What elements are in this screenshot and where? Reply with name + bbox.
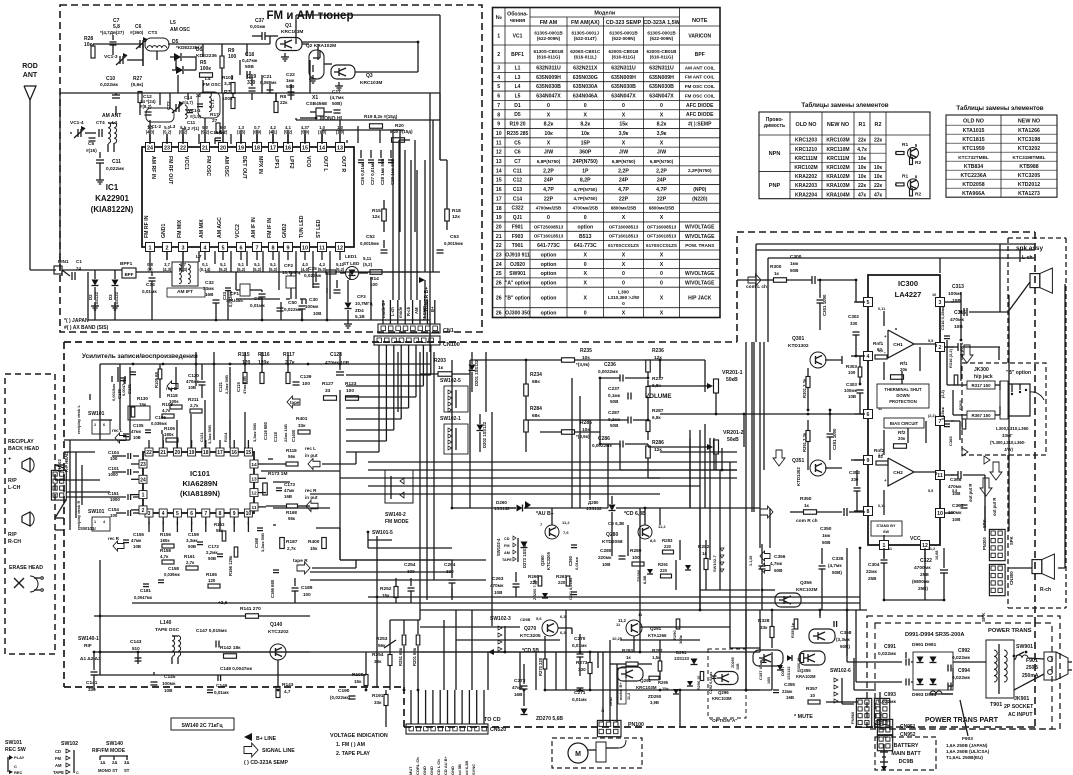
svg-text:R114: R114 <box>223 432 228 442</box>
svg-text:1P: 1P <box>582 168 589 174</box>
svg-text:Q301: Q301 <box>792 336 804 342</box>
svg-text:24P: 24P <box>544 178 554 184</box>
svg-text:C356: C356 <box>774 554 786 560</box>
svg-text:C352: C352 <box>849 470 860 475</box>
svg-text:C5: C5 <box>514 140 521 146</box>
wires tape osc <box>94 651 310 653</box>
svg-text:3,3: 3,3 <box>224 81 231 87</box>
svg-text:24: 24 <box>140 477 146 483</box>
svg-text:R108: R108 <box>162 402 173 407</box>
svg-text:X: X <box>660 262 664 268</box>
wire amp top rails extra <box>756 243 1035 245</box>
svg-text:22: 22 <box>180 145 186 151</box>
svg-text:BACK HEAD: BACK HEAD <box>8 446 39 452</box>
svg-text:0: 0 <box>622 280 625 286</box>
connector CN520 <box>406 724 488 734</box>
svg-text:8: 8 <box>497 112 500 118</box>
svg-text:6130S-0001B: 6130S-0001B <box>609 30 638 35</box>
svg-text:B+: B+ <box>600 706 605 712</box>
svg-text:1Δ: 1Δ <box>100 760 105 765</box>
svg-text:C115: C115 <box>236 382 241 392</box>
svg-text:C313: C313 <box>952 284 964 290</box>
bus amp top rail <box>756 249 1035 251</box>
svg-text:KTD2012: KTD2012 <box>1018 182 1040 188</box>
svg-text:24: 24 <box>147 145 153 151</box>
svg-text:(0,022мк): (0,022мк) <box>330 695 351 700</box>
svg-text:MPX IN: MPX IN <box>257 156 263 174</box>
svg-text:6: 6 <box>103 423 105 427</box>
svg-text:21: 21 <box>160 450 166 456</box>
svg-text:PN100: PN100 <box>628 722 644 728</box>
svg-text:OFT25008513: OFT25008513 <box>534 224 564 229</box>
wire comb mid col <box>491 412 493 626</box>
svg-text:CN300: CN300 <box>1009 571 1014 585</box>
svg-text:X: X <box>547 140 551 146</box>
svg-text:DET OUT: DET OUT <box>241 156 247 180</box>
svg-text:C263: C263 <box>492 576 504 582</box>
svg-text:22к: 22к <box>874 183 883 189</box>
svg-text:SW101r: SW101r <box>80 526 96 531</box>
svg-text:R187: R187 <box>286 539 298 545</box>
svg-text:AM OSC: AM OSC <box>170 27 190 33</box>
svg-text:9: 9 <box>233 511 236 517</box>
svg-text:R127: R127 <box>322 381 334 387</box>
svg-text:2,2мк 50B: 2,2мк 50B <box>224 375 229 394</box>
svg-text:X: X <box>547 112 551 118</box>
IC1 bottom pins 1-12 <box>146 243 155 252</box>
wire horiz tier1 <box>368 539 392 541</box>
svg-text:T901: T901 <box>512 243 524 249</box>
svg-text:47мк: 47мк <box>131 429 142 434</box>
svg-text:R254: R254 <box>372 652 384 658</box>
svg-text:TAPE OSC: TAPE OSC <box>155 627 180 633</box>
svg-text:ZD290: ZD290 <box>648 694 662 699</box>
svg-text:OUT L: OUT L <box>322 156 328 172</box>
svg-text:C26 0,01мк: C26 0,01мк <box>360 161 365 185</box>
svg-text:D201 1SS132: D201 1SS132 <box>474 359 479 386</box>
svg-text:26: 26 <box>496 295 502 301</box>
svg-text:AM IFT: AM IFT <box>177 289 193 295</box>
svg-text:100: 100 <box>346 388 354 394</box>
svg-text:5,5: 5,5 <box>952 489 957 493</box>
svg-text:100мк: 100мк <box>162 681 176 686</box>
svg-text:Rf1: Rf1 <box>900 361 908 366</box>
svg-text:NOTE: NOTE <box>692 18 708 24</box>
svg-text:18: 18 <box>254 145 260 151</box>
svg-text:KRC111M: KRC111M <box>827 156 850 162</box>
IC300 bottom pins 1,12 <box>880 541 889 550</box>
svg-text:(616-011G): (616-011G) <box>537 55 561 60</box>
wire tuner rail y120 <box>296 119 340 121</box>
svg-text:634N047X: 634N047X <box>536 94 561 100</box>
svg-text:REC SW: REC SW <box>5 747 26 753</box>
svg-text:GND: GND <box>608 697 613 706</box>
svg-text:in put: in put <box>305 453 318 458</box>
svg-text:CORL Ch: CORL Ch <box>415 757 420 775</box>
svg-text:PNP: PNP <box>769 183 781 189</box>
wire q-cluster <box>302 43 309 45</box>
svg-text:510: 510 <box>132 646 140 651</box>
svg-text:BPF1: BPF1 <box>120 261 133 267</box>
svg-text:BPF1: BPF1 <box>511 52 524 58</box>
svg-text:632N211X: 632N211X <box>573 66 598 72</box>
wire vr to mid <box>704 424 706 508</box>
svg-text:cd 6,3B: cd 6,3B <box>464 761 469 775</box>
svg-text:KTC732TMBL: KTC732TMBL <box>958 155 989 160</box>
svg-text:2,2P(N750): 2,2P(N750) <box>688 168 712 173</box>
svg-text:D260: D260 <box>496 500 507 505</box>
svg-text:C994: C994 <box>958 668 970 674</box>
svg-text:50B: 50B <box>188 544 196 549</box>
svg-text:10B: 10B <box>188 385 196 390</box>
wire tuner top bus <box>93 43 143 45</box>
svg-text:2: 2 <box>94 423 96 427</box>
svg-text:KIA6289N: KIA6289N <box>182 479 217 488</box>
svg-text:OJ910 911: OJ910 911 <box>505 252 530 258</box>
svg-text:J/W: J/W <box>657 150 666 156</box>
svg-text:LPF2: LPF2 <box>288 156 294 169</box>
svg-text:C159: C159 <box>188 532 199 537</box>
svg-text:W/VOLTAGE: W/VOLTAGE <box>685 234 715 240</box>
svg-text:22: 22 <box>496 243 502 249</box>
svg-text:Q296: Q296 <box>718 690 729 695</box>
svg-text:2,2P: 2,2P <box>656 168 667 174</box>
svg-text:C11: C11 <box>187 120 196 125</box>
svg-text:3,3мк 50B: 3,3мк 50B <box>260 533 265 552</box>
svg-text:C34: C34 <box>146 282 155 288</box>
vert trunks center <box>639 508 641 525</box>
connector CN960 PN960 <box>856 698 871 727</box>
svg-text:FM MODE: FM MODE <box>385 519 409 525</box>
svg-text:C5: C5 <box>88 141 94 147</box>
svg-text:X: X <box>622 112 626 118</box>
svg-text:15к: 15к <box>310 546 318 551</box>
top rail wires <box>100 363 430 365</box>
svg-text:0: 0 <box>622 271 625 277</box>
svg-text:KTC3198TMBL: KTC3198TMBL <box>1012 155 1045 160</box>
svg-text:FM MIX: FM MIX <box>177 219 183 238</box>
svg-text:C6: C6 <box>514 150 521 156</box>
svg-text:R1: R1 <box>902 142 908 148</box>
svg-text:47мк 10B: 47мк 10B <box>242 376 247 394</box>
svg-text:AM RF IN: AM RF IN <box>150 156 156 179</box>
svg-text:5,11: 5,11 <box>363 256 372 261</box>
svg-text:L140: L140 <box>160 620 172 626</box>
svg-text:22P: 22P <box>619 196 629 202</box>
speaker R-ch <box>1032 560 1042 574</box>
svg-text:635N030B: 635N030B <box>611 84 636 90</box>
svg-text:R287: R287 <box>652 408 664 414</box>
svg-text:100: 100 <box>632 555 640 560</box>
svg-text:R235 285: R235 285 <box>507 131 529 137</box>
svg-text:R130: R130 <box>137 396 148 401</box>
svg-text:R350: R350 <box>800 496 812 502</box>
svg-text:0,022мк: 0,022мк <box>952 675 971 681</box>
svg-text:CN520: CN520 <box>490 727 506 733</box>
svg-text:C30: C30 <box>309 297 318 303</box>
svg-text:CD-323A 1,5W: CD-323A 1,5W <box>643 20 680 26</box>
wire comb CN100 down <box>378 352 380 452</box>
svg-text:33к: 33к <box>374 659 382 664</box>
svg-text:C350: C350 <box>820 526 832 532</box>
svg-text:Таблицы замены элементов: Таблицы замены элементов <box>956 105 1043 112</box>
svg-text:47к: 47к <box>858 192 867 198</box>
svg-text:C27 0,01мк: C27 0,01мк <box>370 161 375 185</box>
svg-text:GND: GND <box>429 766 434 775</box>
battery box dashed <box>875 737 936 770</box>
svg-text:C106: C106 <box>155 415 166 420</box>
wire pin2 out <box>945 346 958 348</box>
svg-text:VOLUME: VOLUME <box>645 393 671 400</box>
svg-text:330: 330 <box>850 321 858 326</box>
wire fm front <box>59 93 61 270</box>
svg-text:W/VOLTAGE: W/VOLTAGE <box>685 224 715 230</box>
svg-text:#( ) AX BAND (SIS): #( ) AX BAND (SIS) <box>64 325 109 331</box>
svg-text:11: 11 <box>937 473 943 479</box>
wire horiz tier2 <box>100 439 130 441</box>
svg-text:AM ANT: AM ANT <box>102 113 121 119</box>
svg-text:R118: R118 <box>286 448 297 453</box>
svg-text:R118: R118 <box>167 393 178 398</box>
svg-text:26: 26 <box>496 280 502 286</box>
svg-text:C12: C12 <box>513 178 522 184</box>
svg-text:33мГ: 33мГ <box>1002 433 1013 438</box>
svg-text:SW101-5: SW101-5 <box>372 530 393 536</box>
svg-text:C204: C204 <box>444 562 456 568</box>
svg-text:2: 2 <box>939 345 942 351</box>
svg-text:C355: C355 <box>784 682 795 687</box>
svg-text:Таблицы замены элементов: Таблицы замены элементов <box>801 102 888 109</box>
svg-text:2,7к: 2,7к <box>287 546 296 551</box>
svg-text:47мк: 47мк <box>284 488 295 493</box>
svg-text:8: 8 <box>272 245 275 251</box>
svg-text:50кВ: 50кВ <box>726 377 738 383</box>
svg-text:13: 13 <box>337 145 343 151</box>
svg-text:ST: ST <box>124 768 130 773</box>
svg-text:22к: 22к <box>858 183 867 189</box>
svg-text:5,5: 5,5 <box>928 339 933 343</box>
svg-text:cd 5B: cd 5B <box>457 764 462 775</box>
svg-text:C292 0,01мк: C292 0,01мк <box>709 672 713 694</box>
wire rod-ant to pin1 <box>30 269 56 271</box>
svg-text:220мк: 220мк <box>598 555 612 560</box>
svg-text:JK300: JK300 <box>974 367 989 373</box>
svg-text:option: option <box>541 271 557 277</box>
svg-text:25: 25 <box>496 271 502 277</box>
svg-text:6206S-CB01C: 6206S-CB01C <box>570 49 601 54</box>
svg-text:R-ch: R-ch <box>1040 587 1051 593</box>
svg-text:634N047X: 634N047X <box>611 94 636 100</box>
svg-text:C300: C300 <box>790 254 802 260</box>
svg-text:L300,L310,L360: L300,L310,L360 <box>996 426 1029 431</box>
svg-text:R273: R273 <box>576 660 588 666</box>
svg-text:R190: R190 <box>352 672 364 678</box>
filter CF2 box <box>286 276 296 288</box>
op IC1 body <box>142 147 354 247</box>
svg-text:TAPE: TAPE <box>53 770 64 775</box>
svg-text:4700мк: 4700мк <box>914 565 931 571</box>
svg-text:8,2к: 8,2к <box>544 122 554 128</box>
svg-text:50B: 50B <box>774 568 783 573</box>
wires spk <box>984 492 986 531</box>
svg-text:B513: B513 <box>579 234 592 240</box>
svg-text:8,2к: 8,2к <box>580 122 590 128</box>
svg-text:FM и AM тюнер: FM и AM тюнер <box>267 10 354 22</box>
svg-text:OFT16018513: OFT16018513 <box>534 234 564 239</box>
svg-text:1к: 1к <box>702 551 708 556</box>
svg-text:3,9B: 3,9B <box>650 700 659 705</box>
svg-text:C50: C50 <box>288 300 297 306</box>
svg-text:C993: C993 <box>884 692 896 698</box>
svg-text:D1: D1 <box>514 103 521 109</box>
svg-text:чения: чения <box>510 18 525 24</box>
svg-text:AM ANT COIL: AM ANT COIL <box>685 65 715 70</box>
svg-text:OFT16008513: OFT16008513 <box>609 224 639 229</box>
svg-text:0,0022мк: 0,0022мк <box>598 369 618 374</box>
svg-text:KTA1273: KTA1273 <box>1018 191 1040 197</box>
svg-text:10,88: 10,88 <box>935 550 939 560</box>
svg-text:W/VOLTAGE: W/VOLTAGE <box>685 280 715 286</box>
svg-text:KTA1266: KTA1266 <box>648 633 667 638</box>
wire pin7 chain <box>951 420 960 422</box>
svg-text:0: 0 <box>584 310 587 316</box>
svg-text:KRC103M: KRC103M <box>636 685 657 690</box>
svg-text:4700мк/25B: 4700мк/25B <box>572 206 598 211</box>
svg-text:D991 D991: D991 D991 <box>912 642 937 648</box>
svg-text:C121: C121 <box>199 432 204 442</box>
svg-text:C: C <box>76 771 79 775</box>
svg-text:KRC103M: KRC103M <box>826 138 849 144</box>
diode small mid <box>685 565 691 570</box>
svg-text:KTC1815: KTC1815 <box>962 137 984 143</box>
svg-text:R234: R234 <box>530 372 542 378</box>
svg-text:CD L Ch: CD L Ch <box>436 759 441 775</box>
rec/play head L symbol <box>22 458 30 472</box>
ac plug symbol <box>1044 652 1056 680</box>
svg-text:0,0015мк: 0,0015мк <box>360 241 380 246</box>
svg-text:13: 13 <box>496 159 502 165</box>
svg-text:C14: C14 <box>513 196 522 202</box>
svg-text:R300: R300 <box>770 264 782 270</box>
svg-text:VC1-4: VC1-4 <box>70 120 84 126</box>
svg-text:B+ LINE: B+ LINE <box>256 736 277 742</box>
svg-text:CD: CD <box>55 749 61 754</box>
svg-text:2: 2 <box>142 508 145 514</box>
svg-text:R2: R2 <box>915 160 921 166</box>
svg-text:OFT16018513: OFT16018513 <box>609 234 639 239</box>
svg-text:KTA1015: KTA1015 <box>963 128 985 134</box>
svg-text:33к: 33к <box>298 423 306 428</box>
box SW140 2C 71kHz <box>171 718 234 730</box>
svg-text:C11: C11 <box>112 159 121 165</box>
svg-text:D3: D3 <box>108 294 113 300</box>
svg-text:+: + <box>884 478 887 483</box>
svg-text:1к: 1к <box>438 365 444 371</box>
svg-text:Q3: Q3 <box>366 73 373 79</box>
svg-text:R-CH: R-CH <box>8 539 21 545</box>
svg-text:C172: C172 <box>208 544 219 549</box>
battery symbol <box>883 744 885 768</box>
svg-text:Q270: Q270 <box>524 626 536 632</box>
svg-text:#(15): #(15) <box>86 148 97 153</box>
svg-text:(622-009N): (622-009N) <box>650 36 674 41</box>
svg-text:KTA966A: KTA966A <box>962 191 985 197</box>
svg-text:(KIA8122N): (KIA8122N) <box>91 205 134 214</box>
svg-text:REC/PLAY: REC/PLAY <box>8 439 34 445</box>
wire misc right <box>960 312 962 340</box>
svg-text:R236: R236 <box>652 348 664 354</box>
svg-text:SW102-7: SW102-7 <box>712 555 717 572</box>
wires above IC101 <box>195 352 197 386</box>
svg-text:C991: C991 <box>884 644 896 650</box>
svg-text:KRA102M: KRA102M <box>826 174 849 180</box>
svg-text:KRA104M: KRA104M <box>826 192 849 198</box>
svg-text:11,2: 11,2 <box>658 524 666 529</box>
svg-text:C: C <box>14 764 17 769</box>
svg-text:6130S-0001B: 6130S-0001B <box>647 30 676 35</box>
svg-text:X: X <box>622 253 626 259</box>
wires tuner bottom rails <box>61 270 63 276</box>
main board dashed border top-left <box>64 341 560 343</box>
connector PN100 <box>597 720 621 736</box>
wire mute links <box>730 647 760 649</box>
svg-text:X: X <box>584 112 588 118</box>
svg-text:16: 16 <box>496 187 502 193</box>
svg-text:1,2: 1,2 <box>878 453 883 457</box>
svg-text:R201 68к: R201 68к <box>412 647 417 666</box>
svg-text:*AU B+: *AU B+ <box>536 511 554 517</box>
svg-text:C151: C151 <box>108 491 119 496</box>
svg-text:22P: 22P <box>544 196 554 202</box>
svg-text:F903: F903 <box>512 234 524 240</box>
svg-text:KTB834: KTB834 <box>964 164 983 170</box>
svg-text:C121: C121 <box>218 381 223 392</box>
svg-text:SW: SW <box>883 530 890 534</box>
svg-text:option: option <box>541 295 557 301</box>
svg-text:*CD 5B: *CD 5B <box>522 648 539 654</box>
svg-text:X: X <box>622 215 626 221</box>
svg-text:(616-011G): (616-011G) <box>650 55 674 60</box>
svg-text:J/W: J/W <box>544 150 553 156</box>
wire ic101 bottom drops <box>148 521 150 532</box>
svg-text:VR201-1: VR201-1 <box>722 370 743 376</box>
svg-text:KTC3202: KTC3202 <box>268 629 289 635</box>
svg-text:CF3: CF3 <box>357 294 366 299</box>
wire tuner pin bottoms <box>149 260 151 270</box>
svg-text:641-773C: 641-773C <box>574 243 597 249</box>
svg-text:1. FM ( ) AM: 1. FM ( ) AM <box>336 742 365 748</box>
svg-text:C254: C254 <box>404 562 416 568</box>
box bias circuit <box>884 418 924 428</box>
svg-text:(KIA8189N): (KIA8189N) <box>180 489 221 498</box>
svg-text:C173: C173 <box>284 482 295 487</box>
svg-text:2: 2 <box>166 245 169 251</box>
wire pin11 out <box>951 474 958 476</box>
svg-text:R7: R7 <box>224 90 231 96</box>
svg-text:* MUTE: * MUTE <box>794 714 813 720</box>
svg-text:C146: C146 <box>216 683 228 689</box>
svg-text:J/W: J/W <box>619 150 628 156</box>
svg-text:10: 10 <box>810 693 816 698</box>
box standby sw <box>871 521 902 536</box>
svg-text:15: 15 <box>246 450 252 456</box>
svg-text:L3: L3 <box>515 75 521 81</box>
svg-text:R367 150: R367 150 <box>971 413 991 418</box>
svg-text:SW102-5: SW102-5 <box>440 378 461 384</box>
svg-text:R/P: R/P <box>8 478 17 484</box>
svg-text:R401: R401 <box>296 416 308 422</box>
svg-text:10: 10 <box>496 131 502 137</box>
